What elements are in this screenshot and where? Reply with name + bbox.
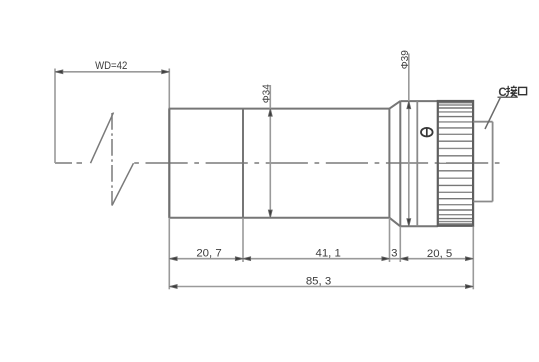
svg-text:85, 3: 85, 3	[306, 276, 331, 288]
row1 arrow at 473.3	[466, 257, 474, 261]
C-mount label leader underline	[498, 96, 518, 98]
row2 arrow left	[170, 285, 178, 289]
barrel section edge at 20.7	[242, 109, 244, 218]
dimension phi34 line	[268, 85, 272, 218]
extension line below knurl right edge	[472, 227, 474, 290]
dimension row1 line	[169, 258, 473, 260]
extension line below cone end	[399, 227, 401, 263]
cone transition top edge	[390, 101, 401, 109]
extension line below front face	[168, 218, 170, 289]
rear ring top edge	[400, 100, 438, 102]
hanzi jie (接)	[506, 86, 518, 97]
row1 arrows at 243	[235, 257, 243, 261]
optical axis left segment	[55, 162, 82, 164]
cone transition bottom edge	[390, 218, 401, 227]
dimension WD=42 arrow left	[55, 70, 63, 74]
svg-text:C: C	[498, 87, 506, 99]
dimension WD=42 extension line left	[54, 69, 56, 164]
svg-text:Φ39: Φ39	[400, 50, 411, 70]
set screw	[421, 128, 433, 137]
rear ring left edge	[399, 101, 401, 226]
rear ring groove edge	[416, 101, 418, 226]
extension line below cone start	[389, 218, 391, 262]
optical axis main segment	[134, 162, 501, 164]
lens front barrel outline	[169, 109, 390, 218]
row1 arrow at 400.3	[400, 257, 408, 261]
hanzi kou (口)	[519, 87, 527, 94]
svg-text:WD=42: WD=42	[95, 59, 127, 72]
extension line below 20.7/41.1 boundary	[242, 218, 244, 262]
row1 arrow at 389.5	[382, 257, 390, 261]
axis break symbol vertical dash-dot	[111, 113, 113, 206]
axis break symbol upper diagonal	[91, 113, 114, 164]
dimension WD=42 arrow right	[162, 70, 170, 74]
C-mount label leader diagonal	[485, 97, 501, 129]
svg-text:3: 3	[391, 247, 397, 259]
svg-text:20, 5: 20, 5	[427, 248, 452, 260]
row1 arrow at front face	[170, 257, 178, 261]
svg-text:20, 7: 20, 7	[196, 248, 221, 260]
barrel rear edge	[388, 109, 390, 218]
row2 arrow right	[466, 285, 474, 289]
svg-text:Φ34: Φ34	[262, 84, 273, 104]
rear ring bottom edge	[400, 225, 438, 227]
dimension WD=42 line	[55, 71, 170, 73]
svg-text:41, 1: 41, 1	[316, 248, 341, 260]
dimension phi39 line	[407, 54, 411, 227]
knurled ring body	[438, 101, 473, 226]
dimension row2 line 85.3	[169, 286, 473, 288]
dimension WD=42 extension line right	[168, 69, 170, 109]
axis break symbol lower diagonal	[112, 163, 134, 205]
C-mount thread cylinder	[473, 122, 492, 202]
